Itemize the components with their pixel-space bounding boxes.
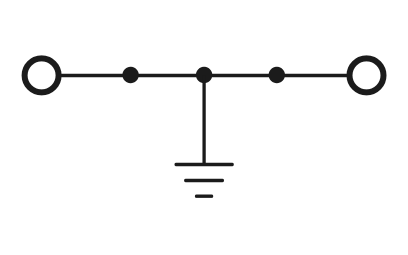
terminal circle left	[25, 58, 59, 92]
wire vertical to ground	[202, 75, 205, 164]
terminal circle right	[350, 58, 384, 92]
junction dot left	[122, 67, 138, 83]
ground	[176, 165, 232, 197]
wire horizontal bus	[60, 74, 348, 77]
junction dot right	[269, 67, 285, 83]
node center junction	[196, 67, 212, 83]
